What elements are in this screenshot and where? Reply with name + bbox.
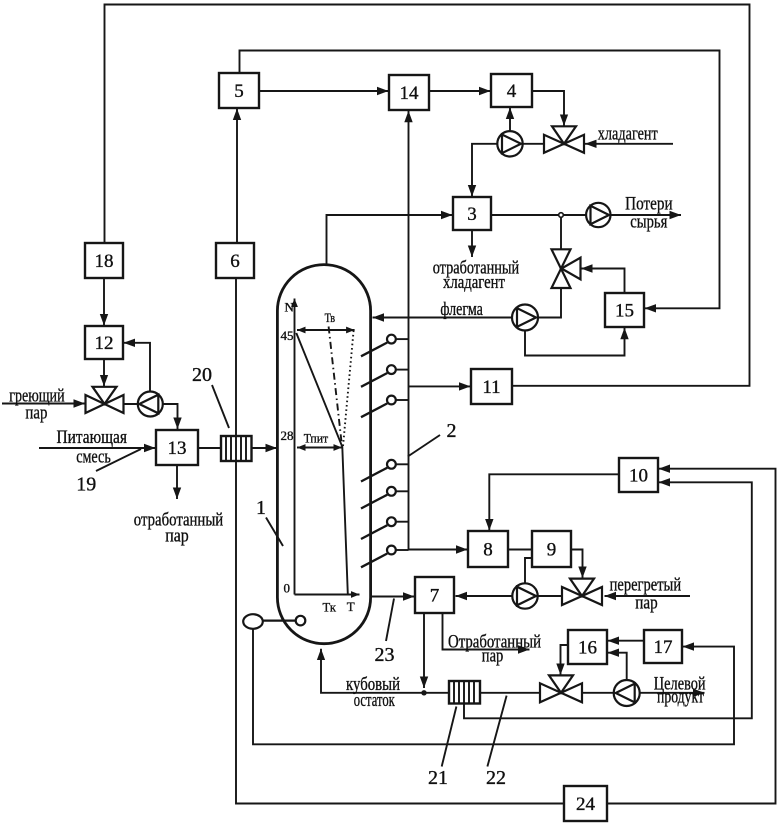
svg-text:продукт: продукт xyxy=(657,687,704,708)
steam control valve xyxy=(562,579,602,605)
block 18 xyxy=(85,243,123,278)
svg-text:23: 23 xyxy=(375,644,395,666)
wire: block 5 to block 14 xyxy=(259,90,389,92)
block 12 xyxy=(85,326,123,359)
temperature probe 2 xyxy=(361,365,409,387)
svg-text:Тв: Тв xyxy=(325,310,336,325)
svg-text:Тк: Тк xyxy=(323,600,337,615)
wire: coolant flow sensor to block 4 xyxy=(509,108,511,131)
wire: bottom loop block 6 through block 24 to block 10 xyxy=(236,278,776,804)
callout 20 xyxy=(192,364,229,428)
graph label 28 xyxy=(281,428,294,443)
wire: block 3 spent coolant down arrow xyxy=(471,230,473,257)
wire: block 6 to block 5 xyxy=(236,109,238,244)
heat exchanger 20 on feed line xyxy=(221,436,252,461)
graph label N xyxy=(285,300,295,315)
callout 1 xyxy=(256,497,283,546)
svg-text:10: 10 xyxy=(629,466,648,487)
callout 2 xyxy=(408,420,457,457)
svg-text:пар: пар xyxy=(482,646,504,667)
wire: reflux valve to reflux pump xyxy=(539,288,562,318)
wire: block 14 to block 4 xyxy=(429,90,491,92)
svg-text:0: 0 xyxy=(284,581,291,596)
wire: block 7 to bottoms line junction xyxy=(423,613,425,688)
wire: block 12 to heating valve actuator xyxy=(103,359,105,386)
graph Tpit double arrow xyxy=(297,447,342,449)
wire: reflux line into column xyxy=(373,317,513,319)
product control valve xyxy=(540,675,582,702)
wire: level line to block 17 xyxy=(253,629,734,745)
label feed mixture xyxy=(57,427,128,468)
wire: bottoms product line through exchanger valve pump xyxy=(424,692,705,694)
junction ring on loss line xyxy=(559,213,564,218)
wire: block 7 spent steam arrow xyxy=(443,613,530,650)
svg-text:хладагент: хладагент xyxy=(598,124,659,145)
heating steam control valve xyxy=(86,387,124,413)
callout 21 xyxy=(428,707,456,790)
wire: collector to block 11 xyxy=(409,385,471,387)
svg-text:8: 8 xyxy=(483,540,493,561)
block 24 xyxy=(564,786,607,821)
wire: heating sensor signal to block 12 xyxy=(124,343,151,392)
wire: product sensor to block 16 xyxy=(608,653,627,681)
graph label Tpit xyxy=(304,431,329,446)
svg-text:45: 45 xyxy=(281,328,294,343)
wire: steam valve to sensor to block 7 xyxy=(456,595,562,597)
svg-text:21: 21 xyxy=(428,767,448,789)
wire: exchanger outlet line to block 10 xyxy=(464,482,752,718)
graph dotted curve xyxy=(343,331,354,447)
block 7 xyxy=(415,577,454,613)
block 10 xyxy=(619,458,658,492)
label spent steam bottom xyxy=(448,632,541,667)
wire: collector bottom to block 8 xyxy=(409,549,468,551)
svg-text:1: 1 xyxy=(256,497,266,519)
wire: steam supply line xyxy=(605,595,691,597)
svg-text:12: 12 xyxy=(95,333,114,354)
svg-text:3: 3 xyxy=(467,204,477,225)
temperature probe 6 xyxy=(361,517,409,539)
heat exchanger 21 on bottoms line xyxy=(449,681,480,704)
callout 19 xyxy=(76,449,141,496)
wire: block 17 to block 16 xyxy=(608,640,645,642)
graph label 0 xyxy=(284,581,291,596)
wire loop: block 11 output via top frame to block 18 xyxy=(105,5,750,386)
svg-text:Тпит: Тпит xyxy=(304,431,329,446)
label feed loss xyxy=(625,194,673,233)
svg-text:7: 7 xyxy=(430,586,440,607)
svg-text:5: 5 xyxy=(234,81,244,102)
label superheated steam xyxy=(610,575,682,614)
svg-text:6: 6 xyxy=(230,251,240,272)
coolant flow sensor pump xyxy=(497,131,522,156)
wire: sensor collector to block 14 xyxy=(408,111,410,550)
distillation column 1 xyxy=(277,265,370,644)
svg-text:13: 13 xyxy=(168,438,187,459)
callout 22 xyxy=(486,696,507,789)
label coolant xyxy=(598,124,659,145)
level sensor float xyxy=(243,614,305,629)
block 13 xyxy=(156,430,198,465)
coolant control valve xyxy=(544,126,584,153)
svg-text:2: 2 xyxy=(447,420,457,442)
block 6 xyxy=(216,243,254,278)
block 9 xyxy=(532,531,571,567)
wire: bottoms residue into column xyxy=(321,649,424,693)
graph temperature profile solid xyxy=(296,333,348,594)
svg-text:смесь: смесь xyxy=(76,447,111,468)
wire: junction to reflux valve xyxy=(560,215,562,250)
wire: coolant valve to sensor to block 3 xyxy=(472,144,545,197)
wire: block 18 to block 12 xyxy=(103,278,105,326)
label target product xyxy=(654,673,706,707)
wire: heating valve to pump to block 13 xyxy=(124,404,178,429)
svg-text:11: 11 xyxy=(482,377,500,398)
wire: block 3 to loss pump to output arrow xyxy=(491,214,681,216)
wire: column overhead vapour to block 3 xyxy=(327,215,453,265)
block 14 xyxy=(389,75,429,110)
wire: block 8 to block 9 xyxy=(508,549,532,551)
svg-text:остаток: остаток xyxy=(354,690,396,711)
graph label Tv xyxy=(325,310,336,325)
label bottoms residue xyxy=(346,674,400,711)
block 8 xyxy=(468,531,508,567)
svg-text:T: T xyxy=(347,599,355,614)
graph Tv double arrow xyxy=(297,329,355,331)
svg-text:хладагент: хладагент xyxy=(443,272,506,293)
graph N axis xyxy=(294,299,296,595)
wire: block 15 to reflux valve actuator xyxy=(581,269,625,294)
label reflux xyxy=(440,299,483,320)
heating steam flow sensor pump xyxy=(138,392,163,417)
label heating steam xyxy=(9,386,64,424)
svg-text:Питающая: Питающая xyxy=(57,427,128,448)
temperature probe 1 xyxy=(361,335,409,357)
graph label 45 xyxy=(281,328,294,343)
svg-text:пар: пар xyxy=(165,526,189,547)
block 4 xyxy=(491,74,532,107)
svg-text:N: N xyxy=(285,300,295,315)
graph label T xyxy=(347,599,355,614)
svg-text:20: 20 xyxy=(192,364,212,386)
label spent steam left xyxy=(134,510,223,547)
block 17 xyxy=(644,630,682,663)
temperature probe 5 xyxy=(361,487,409,509)
block 15 xyxy=(605,293,644,327)
wire: block 13 through exchanger 20 into column xyxy=(198,447,277,449)
svg-text:флегма: флегма xyxy=(440,299,483,320)
product flow sensor pump xyxy=(614,680,640,706)
svg-text:17: 17 xyxy=(654,637,673,658)
temperature probe 3 xyxy=(361,396,409,418)
wire: steam sensor to block 9 xyxy=(525,558,532,584)
svg-text:15: 15 xyxy=(615,301,634,322)
reflux three-way valve vertical xyxy=(552,249,581,288)
graph label Tk xyxy=(323,600,337,615)
block 16 xyxy=(568,630,607,664)
wire: block 9 to steam valve actuator xyxy=(571,550,583,579)
svg-text:16: 16 xyxy=(578,638,597,659)
svg-text:14: 14 xyxy=(400,83,420,104)
temperature probe 7 xyxy=(361,546,409,568)
svg-text:9: 9 xyxy=(547,540,557,561)
svg-text:18: 18 xyxy=(95,251,114,272)
block 11 xyxy=(471,369,512,404)
graph dash-dot curve xyxy=(329,327,342,446)
wire: block 13 spent steam down arrow xyxy=(176,465,178,499)
block 3 xyxy=(453,197,491,230)
wire: block 10 to block 8 xyxy=(489,474,619,530)
wire: block 4 to coolant valve actuator xyxy=(532,91,564,126)
svg-text:пар: пар xyxy=(25,403,47,424)
callout 23 xyxy=(375,599,395,667)
wire: column bottom to block 7 xyxy=(371,596,415,598)
svg-text:сырья: сырья xyxy=(630,212,667,233)
wire loop: block 5 output via second top line to block 15 xyxy=(240,51,720,309)
svg-text:22: 22 xyxy=(486,767,506,789)
reflux flow sensor pump xyxy=(512,305,538,331)
block 5 xyxy=(219,73,259,108)
label spent coolant xyxy=(433,258,520,294)
svg-text:28: 28 xyxy=(281,428,294,443)
wire: coolant supply line xyxy=(585,143,673,145)
graph T axis xyxy=(295,594,360,596)
wire: heating steam supply line xyxy=(2,403,85,405)
wire: feed line to block 13 xyxy=(39,447,156,449)
wire: block 16 to product valve actuator xyxy=(561,645,569,675)
svg-text:19: 19 xyxy=(76,474,96,496)
steam flow sensor pump xyxy=(512,583,537,608)
svg-text:24: 24 xyxy=(576,794,596,815)
temperature probe 4 xyxy=(361,460,409,482)
junction dot on bottoms line xyxy=(421,690,426,695)
wire: reflux sensor signal to block 15 xyxy=(525,328,625,356)
loss of feed pump xyxy=(586,203,610,227)
svg-text:4: 4 xyxy=(507,81,517,102)
svg-text:пар: пар xyxy=(635,593,657,614)
